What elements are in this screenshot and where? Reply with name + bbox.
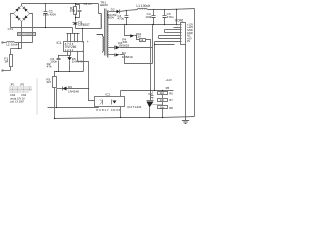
svg-text:L1 100uH: L1 100uH: [137, 4, 152, 8]
IC1 bottom pin wires: [68, 52, 71, 56]
wire: +12V to right edge and down: [194, 9, 196, 117]
svg-text:2k2: 2k2: [160, 91, 165, 95]
notes text block: [10, 84, 25, 87]
svg-text:JP2: JP2: [20, 84, 25, 87]
svg-text:R6: R6: [169, 91, 173, 95]
svg-text:1N4148: 1N4148: [68, 89, 79, 93]
core: [105, 9, 107, 56]
connector pin wires: [178, 24, 181, 26]
wire: -HV rail: [11, 27, 73, 29]
wire: +12V branch down to connector pin1: [176, 10, 178, 25]
AC terminal 1: [2, 42, 3, 43]
wire: EN pin to opto: [78, 52, 95, 101]
primary winding: [100, 14, 103, 29]
svg-text:4k7: 4k7: [46, 80, 51, 84]
capacitor C8: [151, 91, 154, 100]
svg-text:47k: 47k: [47, 65, 52, 69]
svg-text:JP1: JP1: [10, 84, 15, 87]
transformer TR1: [97, 0, 109, 57]
capacitor C3: [125, 11, 129, 25]
svg-text:10k: 10k: [160, 98, 165, 102]
zener ZD1 branch: [124, 24, 125, 25]
lower aux winding: [102, 37, 105, 52]
wire: IC1 source bus: [67, 33, 80, 35]
svg-text:100n: 100n: [50, 60, 57, 64]
wire: bridge top to +HV rail: [21, 4, 23, 6]
wire: secondary ground rail: [109, 24, 178, 26]
node: C1 top: [45, 3, 46, 4]
node C5 top: [164, 9, 165, 10]
svg-text:PC817 4N35: PC817 4N35: [96, 108, 121, 112]
wire: drain node down to IC1 drain pin: [82, 29, 84, 42]
capacitor C2 (clamp, parallel R1): [76, 5, 82, 18]
node C4 top: [153, 9, 154, 10]
svg-text:47k: 47k: [70, 9, 76, 13]
IC1 TNY266: [64, 42, 84, 52]
capacitor C3b (BP pin): [57, 56, 61, 72]
component box with hatching (X cap block): [18, 33, 36, 36]
svg-text:D6: D6: [68, 85, 72, 89]
svg-text:cod. LX.1607: cod. LX.1607: [10, 101, 25, 104]
svg-text:100n: 100n: [145, 15, 152, 19]
svg-text:CON1: CON1: [175, 19, 184, 23]
wire: clamp to primary bottom (drain node): [76, 28, 101, 30]
svg-text:+12V: +12V: [165, 78, 172, 82]
AC terminal 2: [4, 70, 11, 72]
stub near choke: [18, 43, 20, 49]
wire: pin7 sense down: [154, 42, 156, 91]
svg-text:CX1: CX1: [8, 27, 14, 31]
bridge rectifier B1: [14, 6, 30, 22]
secondary winding: [107, 11, 110, 58]
bottom ground rail: [55, 117, 195, 119]
svg-text:400V: 400V: [108, 15, 115, 19]
svg-text:470u: 470u: [167, 15, 174, 19]
optocoupler IC2: [95, 97, 125, 107]
resistor R4 (series, box): [140, 39, 146, 42]
svg-text:1 2 3 4: 1 2 3 4: [65, 48, 74, 52]
svg-text:R8: R8: [169, 106, 173, 110]
capacitor C4: [152, 10, 156, 25]
fuse F1: [10, 49, 13, 71]
svg-text:IC2: IC2: [105, 93, 110, 97]
node C3 top: [126, 10, 127, 11]
wire: +HV top rail: [22, 3, 99, 5]
svg-text:IC1: IC1: [57, 41, 62, 45]
svg-text:IC3 TL431: IC3 TL431: [127, 105, 142, 109]
feedback rail: [121, 90, 174, 92]
diode D5 (bias): [68, 56, 72, 72]
svg-text:CN3: CN3: [21, 93, 27, 97]
diode D6: [57, 87, 89, 91]
svg-text:1N5819: 1N5819: [122, 55, 133, 59]
wire: fuse top rail: [11, 48, 22, 50]
wire: connector gnd drop: [185, 45, 187, 118]
wire: D6 left leg down to opto: [56, 89, 58, 108]
wire: +HV down to transformer primary top: [98, 4, 100, 14]
ground symbol: [182, 117, 189, 124]
wire: sense crossbar: [155, 44, 175, 46]
svg-text:470u: 470u: [117, 17, 124, 21]
wire: AC2 riser to bridge right vertex: [30, 14, 33, 43]
scan crease artifact: [36, 78, 38, 115]
wire: R4 to TL431 cathode line: [146, 40, 151, 101]
opto pin wires: [98, 107, 100, 108]
svg-text:D2: D2: [111, 8, 115, 12]
TL431 IC3: [147, 91, 163, 118]
wire: D4 output routing: [125, 55, 153, 64]
wire: L2 to AC2 riser: [15, 42, 33, 44]
inductor L2: [6, 41, 14, 44]
wire: -HV down to IC source bus: [72, 28, 74, 34]
svg-text:0V: 0V: [187, 39, 190, 43]
diode D3: [109, 46, 153, 50]
resistor R2: [53, 72, 57, 119]
wire: opto bottom-left line: [48, 107, 99, 109]
svg-text:UF4007: UF4007: [78, 23, 90, 27]
diode D1 (clamp): [73, 23, 78, 29]
resistor chain R6 R7 R8: [158, 92, 168, 95]
svg-text:330: 330: [122, 40, 127, 44]
wire: primary return rail: [55, 71, 84, 73]
svg-text:L2 10mH: L2 10mH: [6, 43, 19, 47]
svg-text:R7: R7: [169, 98, 173, 102]
connector CON1: [181, 23, 186, 45]
resistor R1 (clamp): [74, 4, 77, 22]
svg-text:R5: R5: [166, 86, 170, 90]
svg-text:EE20: EE20: [100, 3, 108, 7]
wire: D3 output up to gnd rail: [152, 25, 154, 64]
wire: -HV up to bridge left vertex: [11, 14, 14, 28]
inductor L1: [138, 8, 148, 9]
diode D4: [109, 54, 125, 57]
svg-text:CN2: CN2: [10, 93, 16, 97]
svg-text:100u 400V: 100u 400V: [43, 13, 57, 17]
svg-text:C2 1n: C2 1n: [84, 2, 92, 6]
capacitor C1 (bulk): [44, 4, 48, 28]
capacitor C5: [163, 10, 167, 25]
diode D2 (output rectifier +12V): [109, 9, 195, 14]
wire: IC pin4 down to return rail: [83, 52, 85, 72]
wires: bus to IC top pins: [68, 34, 78, 42]
wire: AC1 bridge bottom vertex down: [21, 22, 23, 49]
svg-text:+: +: [87, 40, 89, 44]
